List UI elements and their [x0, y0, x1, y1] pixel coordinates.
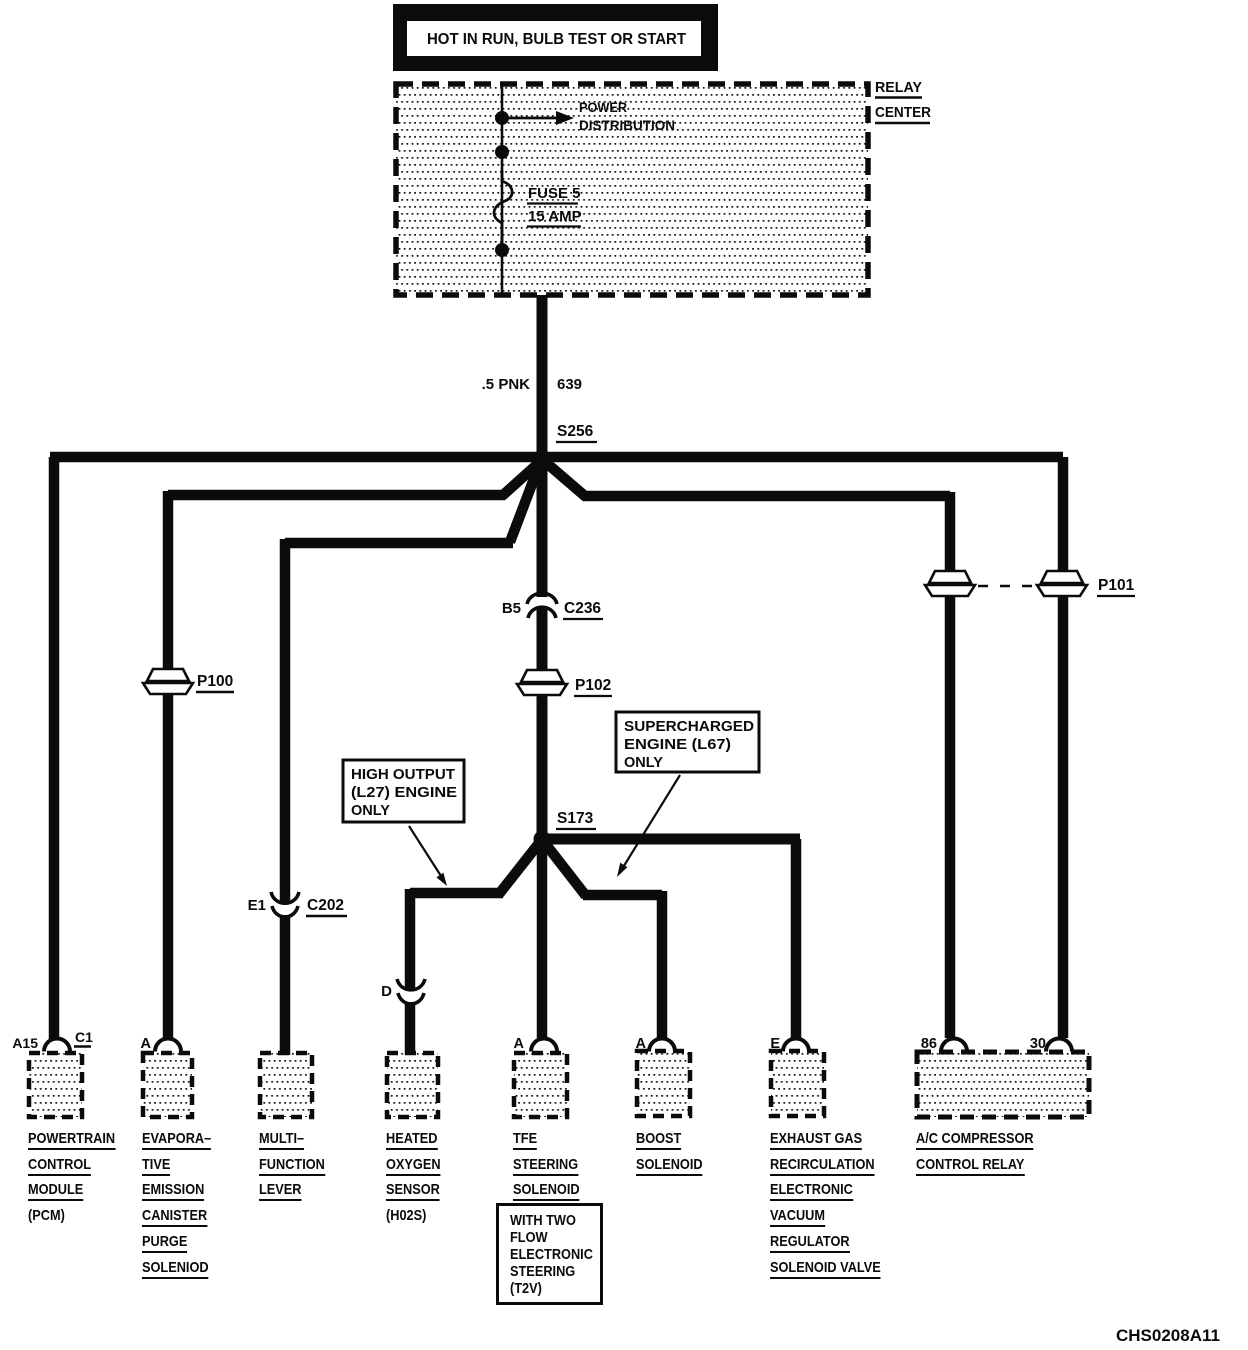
box A/C compressor control relay — [917, 1052, 1089, 1117]
svg-text:C1: C1 — [75, 1029, 93, 1045]
label multi-function lever — [259, 1126, 325, 1203]
wire: level-2 right branch to pin 86 — [543, 460, 950, 1038]
wire: C236 to S173 — [537, 607, 548, 839]
pin A arc on TFE — [514, 1036, 557, 1052]
svg-text:DISTRIBUTION: DISTRIBUTION — [579, 117, 675, 133]
box heated oxygen sensor — [387, 1053, 438, 1117]
connector C202 (E1) inline — [248, 892, 347, 917]
label S256 — [556, 423, 597, 442]
HOT IN RUN title box — [393, 4, 718, 71]
svg-text:FUSE 5: FUSE 5 — [528, 185, 581, 202]
pin A arc on EVAP — [141, 1036, 181, 1052]
svg-text:P101: P101 — [1098, 577, 1135, 594]
label exhaust gas recirculation electronic vacuum regulator solenoid valve — [770, 1126, 881, 1280]
box evap canister purge solenoid — [143, 1053, 192, 1117]
wire: level-3 branch to C202 / multifunction lever — [285, 463, 540, 1055]
label TFE steering solenoid — [513, 1126, 580, 1203]
connector P102 grommet — [517, 670, 612, 696]
wire: level-2 left branch to EVAP — [168, 460, 542, 1039]
box powertrain control module — [29, 1053, 82, 1117]
label boost solenoid — [636, 1126, 703, 1177]
label heated oxygen sensor (HO2S) — [386, 1126, 441, 1229]
svg-text:S256: S256 — [557, 423, 594, 440]
svg-text:A: A — [514, 1036, 525, 1052]
relay center dashed box with stipple fill — [396, 84, 868, 295]
svg-text:B5: B5 — [502, 600, 521, 617]
wire: level-1 bus — [50, 452, 1063, 463]
svg-text:CENTER: CENTER — [875, 104, 931, 121]
svg-text:CHS0208A11: CHS0208A11 — [1116, 1326, 1220, 1345]
junction dot — [495, 111, 509, 125]
svg-text:E1: E1 — [248, 897, 266, 914]
svg-text:HOT IN RUN, BULB TEST OR START: HOT IN RUN, BULB TEST OR START — [427, 31, 686, 48]
svg-text:P100: P100 — [197, 673, 233, 690]
box EGR solenoid valve — [771, 1051, 824, 1116]
svg-text:ENGINE (L67): ENGINE (L67) — [624, 737, 731, 753]
note box with two flow electronic steering (T2V) — [496, 1203, 603, 1305]
dashed link between P101 halves — [978, 585, 1038, 588]
svg-text:RELAY: RELAY — [875, 79, 922, 96]
callout HIGH OUTPUT (L27) ENGINE ONLY — [343, 760, 464, 886]
svg-text:A15: A15 — [12, 1035, 38, 1051]
pin A15 / C1 arc on PCM — [12, 1029, 93, 1052]
wire: right vertical to pin 30 — [1058, 457, 1069, 1038]
svg-text:639: 639 — [557, 376, 582, 393]
wire: S173 left diagonal to HO2S branch — [410, 842, 540, 990]
pin A arc on BOOST — [636, 1036, 675, 1052]
pin 30 arc on A/C relay — [1030, 1036, 1072, 1052]
junction dot — [495, 243, 509, 257]
junction S173 — [534, 810, 597, 848]
svg-text:ONLY: ONLY — [351, 803, 390, 819]
svg-text:A: A — [141, 1036, 152, 1052]
junction S256 — [534, 450, 551, 467]
pin E arc on EGR — [770, 1036, 809, 1052]
svg-text:P102: P102 — [575, 677, 611, 694]
box boost solenoid — [637, 1051, 690, 1116]
wire: S173 right to EGR — [542, 839, 800, 1038]
label powertrain control module (PCM) — [28, 1126, 115, 1229]
svg-text:15 AMP: 15 AMP — [528, 208, 582, 225]
label A/C compressor control relay — [916, 1126, 1034, 1177]
svg-text:ONLY: ONLY — [624, 755, 663, 771]
svg-text:.5 PNK: .5 PNK — [482, 376, 531, 393]
connector P101 left grommet — [925, 571, 975, 596]
connector C236 (B5) — [502, 593, 603, 619]
label evaporative emission canister purge solenoid — [142, 1126, 211, 1280]
callout SUPERCHARGED ENGINE (L67) ONLY — [616, 712, 759, 877]
svg-text:HIGH OUTPUT: HIGH OUTPUT — [351, 767, 455, 783]
svg-text:POWER: POWER — [579, 99, 627, 115]
svg-text:SUPERCHARGED: SUPERCHARGED — [624, 719, 754, 735]
connector P100 grommet — [143, 669, 234, 694]
wire: S173 to TFE solenoid — [537, 839, 548, 1038]
svg-text:D: D — [381, 983, 392, 1000]
fuse FUSE 5 15 AMP — [494, 170, 582, 243]
junction dot — [495, 145, 509, 159]
wire: thin vertical inside relay center — [501, 84, 504, 295]
box TFE steering solenoid — [514, 1053, 567, 1117]
svg-text:S173: S173 — [557, 810, 594, 827]
wire: D to HO2S — [405, 1002, 416, 1055]
box multi-function lever — [260, 1053, 312, 1117]
power distribution arrow — [502, 99, 675, 133]
wire: center vertical S256 to C236 — [537, 458, 548, 597]
wire: .5 PNK 639 feed from relay center to S256 — [537, 295, 548, 458]
connector D inline — [381, 979, 425, 1004]
label RELAY CENTER — [875, 79, 931, 123]
svg-text:C236: C236 — [564, 600, 601, 617]
wire: left vertical to PCM — [49, 457, 60, 1039]
connector P101 right grommet — [1037, 571, 1135, 596]
wire: S173 right diagonal to BOOST branch — [544, 842, 662, 1038]
pin 86 arc on A/C relay — [921, 1036, 967, 1052]
svg-text:(L27) ENGINE: (L27) ENGINE — [351, 785, 457, 801]
svg-text:C202: C202 — [307, 897, 344, 914]
